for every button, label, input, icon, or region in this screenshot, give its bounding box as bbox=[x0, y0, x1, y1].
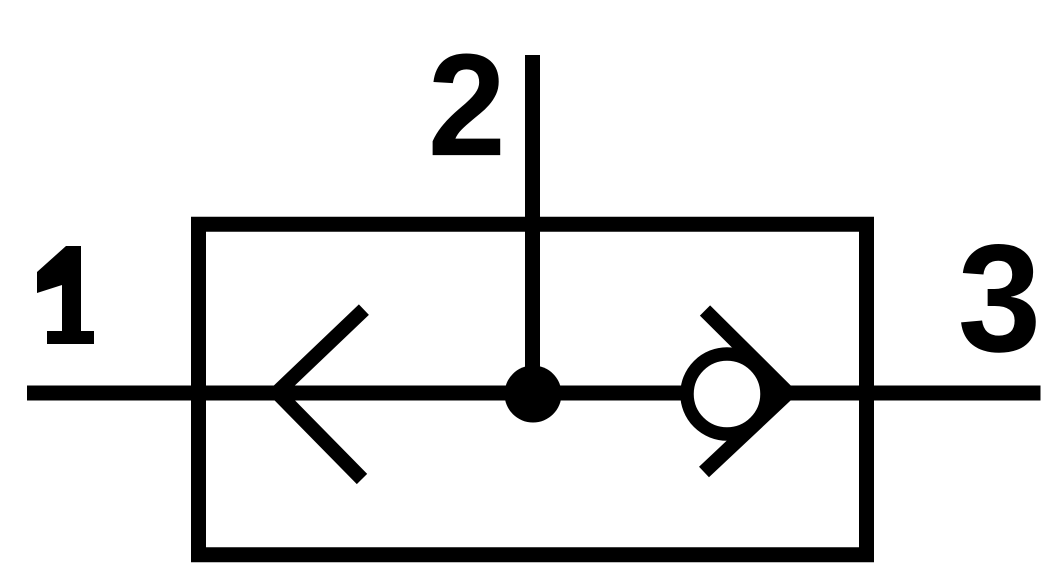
check valve left: arrow toward port 1 bbox=[277, 310, 364, 479]
wire: port 2 vertical line bbox=[525, 55, 540, 394]
junction node (dot) bbox=[505, 366, 562, 423]
svg-text:3: 3 bbox=[958, 214, 1042, 385]
svg-text:2: 2 bbox=[428, 25, 506, 187]
wire: port 1 to port 3 horizontal line bbox=[27, 386, 1041, 401]
port label 1 bbox=[37, 246, 94, 344]
check valve right: seat chevron bbox=[704, 311, 788, 473]
valve body box bbox=[199, 224, 867, 555]
check valve right: ball bbox=[687, 354, 767, 434]
